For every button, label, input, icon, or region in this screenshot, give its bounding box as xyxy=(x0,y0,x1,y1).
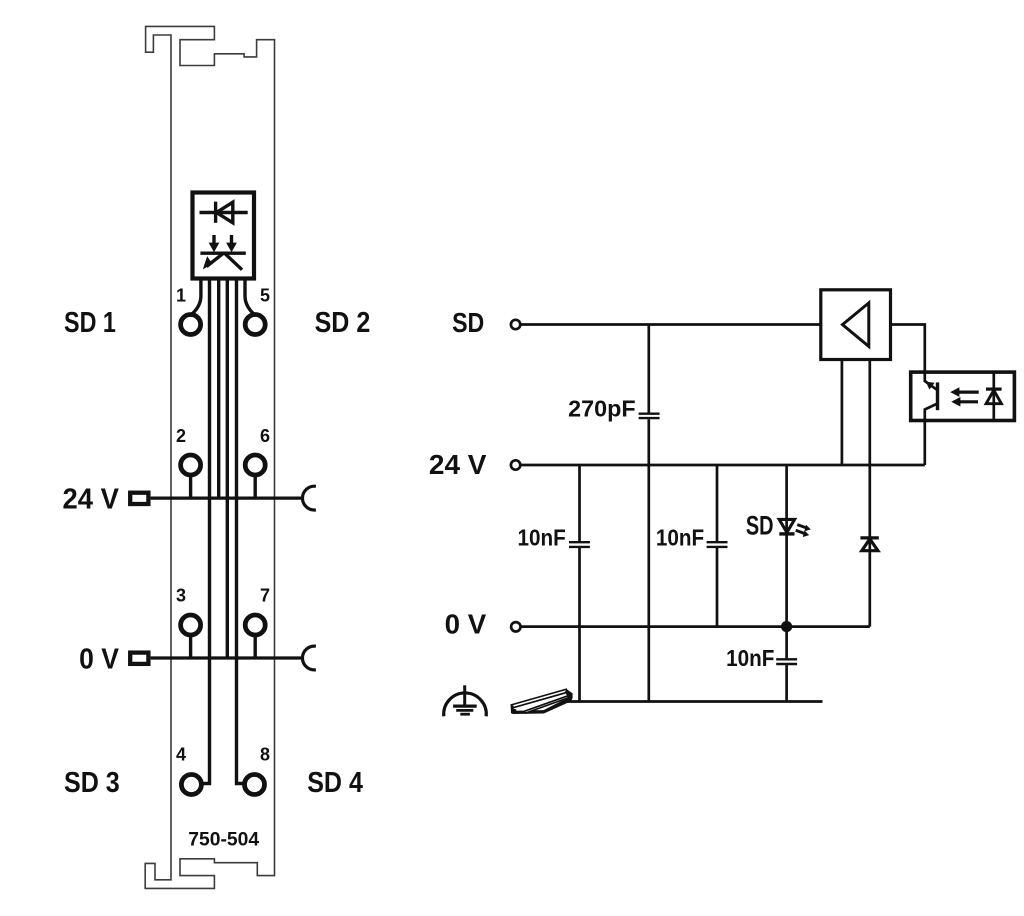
svg-text:SD 1: SD 1 xyxy=(64,307,116,339)
wire amp right output / diode branch xyxy=(868,360,871,551)
wire ground bus xyxy=(563,700,823,703)
wire amp output to optocoupler xyxy=(891,325,925,373)
svg-text:10nF: 10nF xyxy=(726,645,774,671)
optocoupler transistor base bar xyxy=(936,382,939,410)
svg-text:SD: SD xyxy=(746,511,774,541)
svg-text:1: 1 xyxy=(176,285,186,305)
bus wire 6 (to pin 5) xyxy=(245,279,254,315)
svg-text:5: 5 xyxy=(260,285,270,305)
wire 0V rail xyxy=(521,625,870,628)
optocoupler LED cathode bar xyxy=(986,388,1002,391)
wire pin3 stub to 0V line xyxy=(189,635,192,658)
wire pin7 stub to 0V line xyxy=(253,635,256,658)
wire SD rail xyxy=(521,323,821,326)
ground symbol xyxy=(444,685,487,716)
svg-text:SD 2: SD 2 xyxy=(315,307,371,339)
DIN rail symbol xyxy=(511,689,573,714)
svg-text:8: 8 xyxy=(260,745,270,765)
pin 7 xyxy=(245,615,265,635)
svg-text:SD 4: SD 4 xyxy=(307,767,363,799)
optocoupler LED wire xyxy=(992,372,995,420)
wire 24V module line xyxy=(151,497,304,500)
wire diode to 0V rail xyxy=(868,551,871,627)
svg-text:7: 7 xyxy=(260,586,270,606)
optocoupler light arrow 2 xyxy=(951,397,978,407)
wire pin6 stub to 24V line xyxy=(253,475,256,498)
module outline 750-504 body xyxy=(145,26,274,888)
arrowheads in LED box xyxy=(203,243,237,270)
svg-text:24 V: 24 V xyxy=(63,483,119,515)
bus wire 4 (to 0V rail) xyxy=(226,279,229,658)
power jumper contact arc 0V xyxy=(302,646,315,670)
diode D1 cathode bar xyxy=(860,536,878,539)
wire pin2 stub to 24V line xyxy=(189,475,192,498)
terminal 0V xyxy=(511,622,520,631)
pin 5 xyxy=(245,315,265,335)
wire amp left output to 24V xyxy=(841,360,844,466)
diode D-ind inside LED box xyxy=(200,202,248,223)
optocoupler transistor arrow xyxy=(926,382,935,390)
LED SD triangle xyxy=(779,519,794,532)
pin 2 xyxy=(181,455,201,475)
svg-text:0 V: 0 V xyxy=(79,643,119,675)
LED indicator box U-LED xyxy=(193,193,255,279)
optocoupler LED triangle xyxy=(986,390,1001,404)
wire optocoupler emitter to 24V rail xyxy=(923,421,926,466)
bus wire 2 (to pin 4) xyxy=(201,279,210,784)
pin 3 xyxy=(181,615,201,635)
LED SD light arrows xyxy=(796,525,811,537)
svg-text:4: 4 xyxy=(176,745,186,765)
svg-text:750-504: 750-504 xyxy=(188,829,259,851)
optocoupler transistor emitter wire xyxy=(925,404,938,421)
optocoupler light arrow 1 xyxy=(950,387,979,397)
LED SD cathode bar xyxy=(779,532,794,535)
bus wire 5 (to pin 8) xyxy=(237,279,246,784)
capacitor C2 10nF plates xyxy=(569,542,590,547)
terminal square 0V xyxy=(130,653,148,664)
terminal square 24V xyxy=(130,493,148,504)
svg-text:0 V: 0 V xyxy=(445,608,487,639)
op-amp U1 triangle xyxy=(843,303,869,347)
diode D1 triangle xyxy=(862,539,878,551)
svg-text:2: 2 xyxy=(176,426,186,446)
svg-text:3: 3 xyxy=(176,586,186,606)
pin 8 xyxy=(245,775,265,795)
optocoupler U2 box xyxy=(911,372,1015,420)
capacitor C4 10nF plates xyxy=(776,659,797,664)
photo element inside LED box xyxy=(200,235,245,270)
capacitor C1 270pF plates xyxy=(639,414,660,418)
pin 1 xyxy=(181,315,201,335)
pin 4 xyxy=(181,775,201,795)
svg-text:10nF: 10nF xyxy=(518,525,566,551)
junction node 0V/LED xyxy=(781,621,792,632)
svg-text:6: 6 xyxy=(260,426,270,446)
LED SD wire xyxy=(785,465,788,627)
capacitor C1 270pF wire xyxy=(647,325,650,702)
svg-text:10nF: 10nF xyxy=(656,525,704,551)
op-amp U1 box xyxy=(821,290,891,360)
wire 0V module line xyxy=(151,656,304,659)
svg-text:24 V: 24 V xyxy=(429,449,487,480)
power jumper contact arc 24V xyxy=(302,486,315,510)
capacitor C3 10nF wire xyxy=(716,465,719,627)
optocoupler transistor collector wire xyxy=(925,372,938,390)
terminal 24V xyxy=(511,460,520,469)
capacitor C4 10nF wire xyxy=(785,627,788,702)
svg-text:270pF: 270pF xyxy=(568,396,635,422)
pin 6 xyxy=(245,455,265,475)
svg-text:SD 3: SD 3 xyxy=(64,767,120,799)
svg-text:SD: SD xyxy=(452,307,484,338)
capacitor C3 10nF plates xyxy=(707,542,728,547)
bus wire 1 (to pin 1) xyxy=(192,279,201,315)
bus wire 3 (to 24V rail) xyxy=(217,279,220,498)
terminal SD xyxy=(511,320,520,329)
capacitor C2 10nF wire xyxy=(578,465,581,702)
wire 24V rail xyxy=(521,464,925,467)
